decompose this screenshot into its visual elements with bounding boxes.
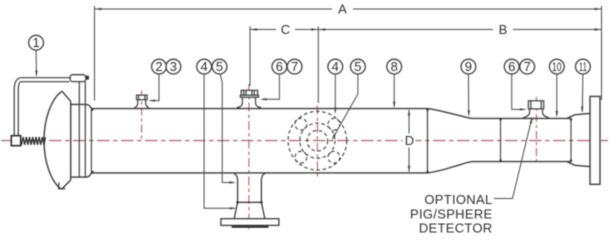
nozzle N1 coupling — [134, 95, 149, 108]
svg-text:OPTIONAL: OPTIONAL — [424, 192, 492, 207]
svg-text:6: 6 — [508, 59, 515, 74]
main horizontal centerline — [1, 140, 608, 142]
balloon 1 leader — [35, 50, 37, 75]
closure door — [44, 91, 71, 189]
side outlet flange (hidden) — [288, 111, 347, 170]
nozzle N2 blind flange — [238, 90, 261, 108]
dimension C arrows — [250, 28, 318, 31]
svg-text:10: 10 — [552, 60, 562, 74]
closure weld seam — [90, 109, 92, 173]
optional detector note text — [410, 192, 492, 235]
reducer cone — [428, 109, 474, 173]
svg-text:2: 2 — [155, 59, 162, 74]
drain weld dots — [236, 201, 262, 204]
jackscrew bolt head — [11, 136, 20, 146]
davit hinge stub — [86, 76, 89, 80]
pipe/flange weld seam — [570, 118, 572, 161]
closure weld dots — [91, 108, 94, 173]
dimension B arrows — [318, 28, 601, 31]
svg-text:A: A — [338, 2, 347, 17]
balloon 10 leader — [556, 74, 558, 116]
balloon 9 — [461, 59, 476, 74]
svg-text:6: 6 — [276, 59, 283, 74]
small pipe shell — [474, 118, 572, 161]
dimension D arrows — [408, 109, 411, 173]
balloon 6b — [504, 59, 519, 74]
balloon 1 — [29, 35, 44, 50]
balloon 6 — [272, 59, 287, 74]
drain flange — [221, 219, 279, 226]
balloon 4 — [197, 59, 212, 74]
balloon 5b leader (side flange bore) — [333, 74, 358, 139]
dimension A line — [95, 8, 602, 10]
dimension C line — [250, 29, 318, 31]
svg-text:5: 5 — [354, 59, 361, 74]
balloon 5 leader (drain) — [220, 74, 234, 183]
balloon 4b — [328, 59, 343, 74]
balloon 11 leader — [581, 74, 584, 111]
detector nozzle coupling — [523, 101, 550, 118]
drain flange raised face — [232, 226, 269, 228]
dimension A arrows — [95, 8, 602, 11]
balloon 4 leader (drain) — [204, 74, 235, 208]
closure door foot — [59, 183, 66, 189]
closure hinge pillar / clamp band — [79, 82, 85, 178]
dimension B line — [318, 29, 601, 31]
side flange centerline — [316, 106, 318, 177]
extension line right (A/B) — [601, 6, 603, 100]
extension line left (A) — [94, 6, 96, 101]
detector nozzle centerline — [535, 97, 537, 161]
svg-text:PIG/SPHERE: PIG/SPHERE — [410, 206, 492, 221]
barrel/reducer weld seam — [427, 109, 429, 173]
balloon 5b — [351, 59, 366, 74]
balloon 7b — [520, 59, 535, 74]
drain nozzle hub — [234, 202, 265, 218]
terminal flange plate — [590, 96, 600, 184]
extension line C/B middle — [317, 27, 319, 104]
drain nozzle stem — [234, 173, 266, 202]
balloon 2 — [152, 59, 167, 74]
vessel barrel shell — [91, 109, 427, 173]
optional detector note leader — [494, 118, 532, 199]
balloon 11 — [576, 59, 591, 74]
svg-text:D: D — [405, 133, 414, 148]
balloon 8 — [387, 59, 402, 74]
davit hinge block — [70, 75, 86, 82]
detector nozzle weld dot — [531, 118, 533, 120]
svg-text:C: C — [281, 22, 290, 37]
balloon 9 leader — [467, 74, 469, 115]
extension line C-left — [249, 27, 251, 87]
balloon 6 leader (kicker) — [262, 74, 280, 99]
balloon 3 — [166, 59, 181, 74]
dimension D line — [408, 110, 410, 172]
balloon 8 leader — [393, 74, 395, 106]
balloon 2/3 leader — [150, 74, 159, 100]
dimension D label — [403, 134, 416, 148]
nozzle N2 weld dots — [237, 107, 261, 109]
balloon 5 — [212, 59, 227, 74]
balloon 6b leader (detector) — [512, 74, 525, 109]
balloon 4b leader (side flange) — [334, 74, 336, 112]
svg-text:7: 7 — [524, 59, 531, 74]
balloon 10 — [549, 59, 564, 74]
svg-text:B: B — [499, 22, 508, 37]
svg-text:1: 1 — [32, 35, 39, 50]
svg-text:7: 7 — [291, 59, 298, 74]
svg-text:8: 8 — [391, 59, 398, 74]
terminal flange hub — [567, 113, 590, 166]
svg-text:4: 4 — [332, 59, 339, 74]
svg-text:5: 5 — [216, 59, 223, 74]
closure davit handle — [14, 78, 69, 136]
jackscrew threads — [22, 137, 46, 145]
balloon 7 — [287, 59, 302, 74]
svg-text:9: 9 — [465, 59, 472, 74]
svg-text:DETECTOR: DETECTOR — [419, 220, 493, 235]
svg-text:4: 4 — [200, 59, 207, 74]
svg-text:3: 3 — [170, 59, 177, 74]
svg-text:11: 11 — [579, 60, 587, 74]
reducer/pipe weld seam — [500, 118, 502, 161]
nozzle N1 centerline — [141, 91, 143, 142]
closure hub — [71, 104, 92, 177]
nozzle N2 / drain centerline — [248, 84, 250, 231]
